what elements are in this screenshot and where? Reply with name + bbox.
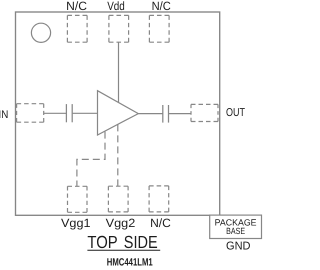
- svg-text:Vgg2: Vgg2: [106, 216, 136, 230]
- svg-text:N/C: N/C: [152, 0, 172, 13]
- dashed wire Vgg2: [117, 124, 119, 186]
- wire IN pad to C1: [44, 112, 66, 114]
- svg-text:N/C: N/C: [66, 0, 87, 13]
- pad N/C top-left: [67, 15, 87, 42]
- svg-text:GND: GND: [226, 241, 251, 253]
- pad N/C bottom: [149, 186, 169, 212]
- svg-text:IN: IN: [0, 109, 8, 121]
- pad N/C top-right: [149, 15, 169, 42]
- package outline: [16, 12, 220, 215]
- svg-text:HMC441LM1: HMC441LM1: [107, 257, 153, 269]
- pad IN: [17, 104, 44, 123]
- capacitor C2: [163, 105, 169, 123]
- wire amplifier to C2: [138, 113, 162, 115]
- pad Vdd: [109, 15, 129, 42]
- svg-text:OUT: OUT: [226, 107, 245, 119]
- pad Vgg2: [108, 186, 128, 212]
- pin 1 marker: [31, 23, 50, 42]
- underline TOP SIDE: [87, 249, 160, 251]
- dashed wire Vgg1: [77, 132, 105, 187]
- wire Vdd to amplifier: [118, 42, 120, 102]
- pad Vgg1: [68, 186, 88, 212]
- svg-text:TOP: TOP: [87, 232, 117, 252]
- wire C1 to amplifier: [73, 112, 98, 114]
- svg-text:BASE: BASE: [226, 226, 245, 236]
- pad OUT: [191, 104, 218, 121]
- svg-text:SIDE: SIDE: [124, 232, 158, 252]
- svg-text:N/C: N/C: [150, 216, 171, 230]
- package base box: [210, 215, 262, 238]
- svg-text:Vgg1: Vgg1: [61, 216, 91, 230]
- capacitor C1: [66, 104, 72, 122]
- wire C2 to OUT pad: [169, 113, 191, 115]
- amplifier U1: [98, 91, 139, 135]
- svg-text:Vdd: Vdd: [107, 0, 125, 13]
